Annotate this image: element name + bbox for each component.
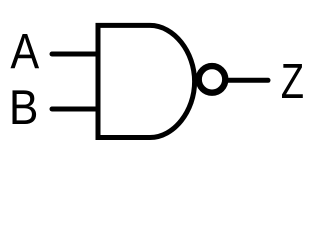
inversion bubble <box>199 66 226 93</box>
wire output Z <box>227 78 268 83</box>
wire input B <box>52 107 98 112</box>
input label B <box>13 90 37 124</box>
input label A <box>11 34 40 68</box>
wire input A <box>52 52 98 57</box>
output label Z <box>282 64 303 98</box>
NAND gate U1 body <box>98 25 195 137</box>
